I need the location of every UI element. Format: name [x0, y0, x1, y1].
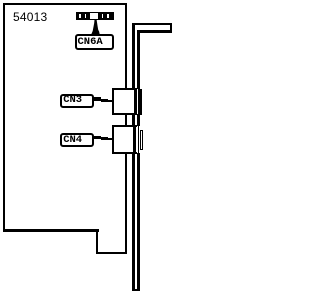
text 54013 — [13, 11, 47, 25]
connector CN3 bottom edge — [112, 113, 136, 115]
board outline right edge middle segment — [125, 114, 127, 126]
board outline right edge lower segment — [125, 153, 127, 254]
connector CN4 outer bar slit — [141, 131, 142, 149]
bracket left line lower segment — [132, 153, 135, 291]
board outline bottom edge — [3, 229, 99, 232]
CN6A label box — [75, 34, 114, 50]
connector CN3 inner bar — [134, 88, 138, 115]
bracket right line lower segment — [137, 153, 140, 291]
bracket right line middle segment — [137, 114, 140, 126]
bracket left line upper segment — [132, 23, 135, 89]
board outline step bottom — [96, 252, 127, 254]
connector CN4 bottom edge — [112, 152, 137, 154]
board outline top edge — [3, 3, 126, 5]
connector CN3 left edge — [112, 88, 114, 115]
connector CN4 inner bar — [133, 125, 136, 154]
bracket bottom cap — [132, 289, 140, 292]
board outline right edge upper segment — [125, 3, 127, 90]
bracket arm bottom edge — [137, 30, 172, 32]
CN4 arrow stub — [94, 136, 101, 140]
bracket right line upper segment — [137, 30, 140, 89]
connector CN4 top edge — [112, 125, 137, 127]
CN3 label box — [60, 94, 94, 107]
CN3 arrow tip — [108, 100, 114, 102]
connector CN4 middle bar — [138, 125, 140, 154]
connector CN3 outer bar — [138, 89, 142, 115]
CN3 arrow stub — [94, 97, 101, 101]
board outline step vertical — [96, 229, 98, 254]
board outline left edge — [3, 3, 5, 231]
switch block slot 2 — [85, 14, 86, 19]
switch block slot 5 — [107, 14, 108, 19]
CN6A pointer — [0, 0, 174, 295]
CN4 arrow tip — [108, 138, 114, 140]
CN3 arrow mid — [101, 99, 108, 102]
connector CN4 outer bar — [140, 130, 143, 150]
bracket arm right cap — [170, 23, 172, 33]
CN4 arrow mid — [101, 137, 108, 140]
switch block CN6A body — [76, 12, 114, 20]
bracket arm top edge — [132, 23, 172, 25]
connector CN3 top edge — [112, 88, 136, 90]
connector CN4 left edge — [112, 125, 114, 154]
bracket left line middle segment — [132, 114, 135, 126]
CN4 label box — [60, 133, 94, 147]
switch block slot 1 — [79, 14, 80, 19]
switch block wide slot — [90, 13, 98, 19]
switch block slot 4 — [102, 14, 103, 19]
